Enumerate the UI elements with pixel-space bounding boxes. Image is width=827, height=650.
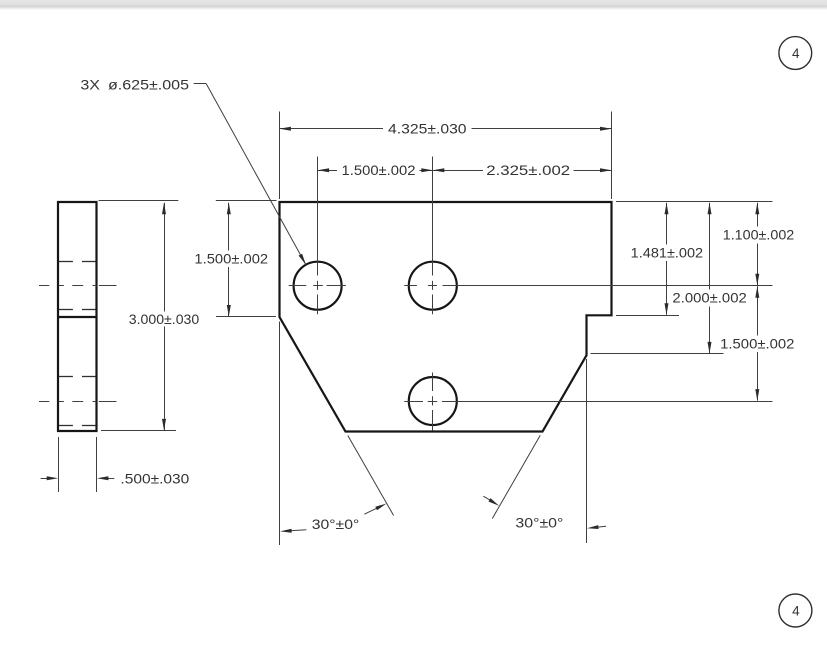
dimension 1.100±.002 right xyxy=(723,203,795,285)
hole 3 horizontal center mark and right extension line xyxy=(404,401,772,403)
svg-text:30°±0°: 30°±0° xyxy=(312,517,360,532)
right chamfer extension diagonal xyxy=(492,435,540,518)
side view bottom extension line xyxy=(101,430,176,432)
svg-text:2.325±.002: 2.325±.002 xyxy=(486,163,570,178)
side view chamfer edge line xyxy=(58,316,97,318)
hole 3 circle xyxy=(409,377,457,425)
left vertical edge extension for angle dim xyxy=(279,322,281,546)
side view hidden line hole row 1 top xyxy=(59,261,96,263)
dimension 2.000±.002 right xyxy=(672,203,746,354)
top edge extension line right xyxy=(616,201,773,203)
front view part outline xyxy=(280,202,612,432)
svg-text:3.000±.030: 3.000±.030 xyxy=(129,312,199,327)
side view outline xyxy=(58,202,97,431)
leader 3X ø.625±.005 xyxy=(80,77,306,264)
right chamfer start extension line xyxy=(591,353,724,355)
dimension 3.000±.030 left xyxy=(129,203,199,431)
svg-text:4: 4 xyxy=(792,46,800,61)
dimension 1.500±.002 left xyxy=(194,203,268,317)
hole 3 vertical center mark xyxy=(432,373,434,431)
dimension .500±.030 side view xyxy=(41,472,190,487)
svg-text:1.500±.002: 1.500±.002 xyxy=(194,252,268,267)
left chamfer extension diagonal xyxy=(348,436,394,516)
hole 2 vertical centerline and extension xyxy=(432,157,434,315)
zone marker circle 4 top right xyxy=(779,37,812,70)
side view centerline upper xyxy=(39,285,117,287)
svg-text:30°±0°: 30°±0° xyxy=(515,515,563,530)
step edge extension line right xyxy=(616,315,679,317)
hole 2 circle xyxy=(409,262,457,310)
top edge extension line left of front view xyxy=(216,200,277,202)
dimension 1.500±.002 top xyxy=(318,163,433,178)
side view left extension for .500 xyxy=(58,437,60,492)
svg-text:1.481±.002: 1.481±.002 xyxy=(631,245,703,260)
zone marker circle 4 bottom right xyxy=(779,594,812,627)
hole 1 horizontal center mark xyxy=(289,285,346,287)
svg-text:1.500±.002: 1.500±.002 xyxy=(720,337,794,352)
side view hidden line hole 3 top xyxy=(59,376,96,378)
svg-text:1.100±.002: 1.100±.002 xyxy=(723,228,795,243)
hole 1 vertical centerline and extension xyxy=(317,157,319,315)
hole 2 horizontal center mark and right extension line xyxy=(404,285,772,287)
svg-text:1.500±.002: 1.500±.002 xyxy=(342,163,416,178)
dimension 4.325±.030 top xyxy=(279,122,611,137)
svg-text:2.000±.002: 2.000±.002 xyxy=(672,291,746,306)
extension line right of 4.325 xyxy=(611,112,613,200)
svg-text:4: 4 xyxy=(792,604,800,619)
top edge extension line between views xyxy=(99,200,179,202)
angle dimension 30°±0° left xyxy=(280,504,386,533)
extension line left of 4.325 xyxy=(279,112,281,200)
side view hidden line hole 3 bottom xyxy=(59,425,96,427)
side view hidden line hole row 1 bottom xyxy=(59,309,96,311)
top chrome gradient bar xyxy=(0,0,827,10)
side view centerline lower xyxy=(39,401,117,403)
dimension 2.325±.002 top xyxy=(433,163,612,178)
side view right extension for .500 xyxy=(96,437,98,492)
svg-text:3X ø.625±.005: 3X ø.625±.005 xyxy=(80,77,189,92)
right vertical edge extension for angle dim xyxy=(586,359,588,543)
dimension 1.500±.002 lower right xyxy=(720,286,794,400)
angle dimension 30°±0° right xyxy=(483,496,606,530)
left chamfer start extension line xyxy=(216,316,276,318)
dimension 1.481±.002 right xyxy=(631,203,703,315)
svg-text:.500±.030: .500±.030 xyxy=(120,472,189,487)
svg-text:4.325±.030: 4.325±.030 xyxy=(388,122,467,137)
hole 1 circle xyxy=(294,262,342,310)
